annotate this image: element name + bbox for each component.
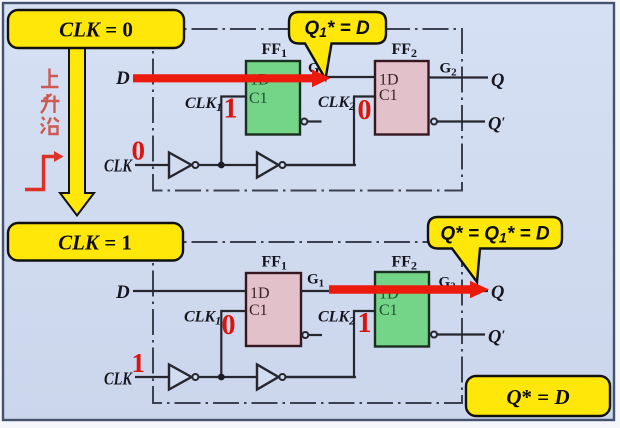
svg-text:0: 0: [132, 136, 146, 166]
wire G1: FF1 output to FF2 input (top): [300, 76, 375, 78]
wire CLK input (top): [135, 164, 356, 166]
hanzi sheng (rise): [41, 94, 60, 113]
svg-text:C1: C1: [249, 302, 268, 319]
inverter gate 2 (bottom): [257, 365, 279, 390]
flip-flop FF1 (bottom, pink): [246, 273, 301, 346]
wire Q output (top): [429, 76, 489, 78]
flip-flop FF2 (top, pink): [375, 61, 429, 135]
hanzi yan (edge): [41, 117, 59, 134]
wire junction to FF1 C1 (bottom): [221, 311, 246, 377]
inverter gate 1 (top): [169, 153, 192, 178]
inverter gate 1 (bottom): [169, 365, 192, 390]
inverter gate 2 (top): [257, 153, 279, 178]
callout box CLK=0: [8, 10, 184, 48]
wire junction to FF1 C1 (top): [221, 97, 246, 166]
callout box Q*=D: [466, 376, 610, 416]
bubble inverter 2 (bottom): [279, 374, 285, 380]
junction node (bottom): [218, 374, 225, 381]
svg-text:Q* = D: Q* = D: [506, 385, 569, 409]
wire CLK input (bottom): [135, 376, 356, 378]
bubble FF2 Q' output (bottom): [431, 332, 437, 338]
svg-text:CLK: CLK: [104, 369, 134, 389]
svg-text:Q: Q: [491, 71, 504, 91]
svg-text:C1: C1: [249, 90, 268, 107]
svg-text:Q1* = D: Q1* = D: [304, 18, 370, 40]
svg-text:CLK = 1: CLK = 1: [58, 231, 132, 255]
svg-text:C1: C1: [379, 87, 398, 104]
red signal arrow G1 to Q (bottom): [329, 281, 489, 299]
wire Q output (bottom): [429, 290, 488, 292]
wire inverter2 to FF2 C1 (top): [286, 97, 375, 166]
svg-text:CLK = 0: CLK = 0: [59, 18, 133, 42]
callout bubble Q1*=D: [289, 12, 386, 79]
svg-text:1: 1: [358, 308, 372, 339]
svg-text:0: 0: [358, 95, 372, 126]
callout bubble Q*=Q1*=D: [428, 217, 562, 282]
svg-text:1D: 1D: [379, 72, 399, 89]
yellow transition arrow: [60, 40, 94, 216]
bubble inverter 1 (top): [192, 162, 198, 168]
top circuit boundary (dash-dot box): [153, 29, 462, 191]
wire G1: FF1 output to FF2 input (bottom): [301, 290, 375, 292]
bubble FF1 complement stub (bottom): [302, 332, 308, 338]
bubble inverter 2 (top): [279, 162, 285, 168]
wire inverter2 to FF2 C1 (bottom): [286, 311, 375, 377]
bubble FF2 Q' output (top): [431, 119, 437, 125]
bubble FF1 complement stub (top): [301, 119, 307, 125]
svg-text:Q: Q: [491, 283, 504, 303]
rising edge symbol: [25, 157, 55, 190]
callout box CLK=1: [8, 223, 183, 261]
svg-text:D: D: [115, 282, 130, 303]
wire FF1 complement stub (top): [308, 120, 322, 122]
svg-text:1: 1: [224, 94, 238, 125]
wire FF1 complement stub (bottom): [309, 334, 322, 336]
junction node (top): [218, 162, 225, 169]
wire Q' output (top): [437, 120, 485, 122]
bottom circuit boundary (dash-dot box): [153, 242, 462, 403]
svg-text:Q* = Q1* = D: Q* = Q1* = D: [440, 224, 549, 246]
svg-text:0: 0: [222, 310, 236, 341]
hanzi shang (rising): [41, 69, 59, 88]
wire D input (bottom): [133, 290, 246, 292]
wire D input (top): [133, 76, 246, 78]
svg-text:D: D: [115, 68, 130, 89]
wire Q' output (bottom): [437, 333, 485, 335]
flip-flop FF2 (bottom, green): [375, 272, 429, 347]
rising edge arrowhead: [54, 151, 64, 162]
flip-flop FF1 (top, green): [246, 61, 300, 135]
svg-text:1: 1: [132, 348, 146, 378]
svg-text:CLK: CLK: [104, 156, 134, 176]
bubble inverter 1 (bottom): [192, 374, 198, 380]
svg-text:1D: 1D: [250, 285, 270, 302]
red signal arrow D to G1 (top): [133, 69, 331, 87]
svg-text:C1: C1: [379, 302, 398, 319]
